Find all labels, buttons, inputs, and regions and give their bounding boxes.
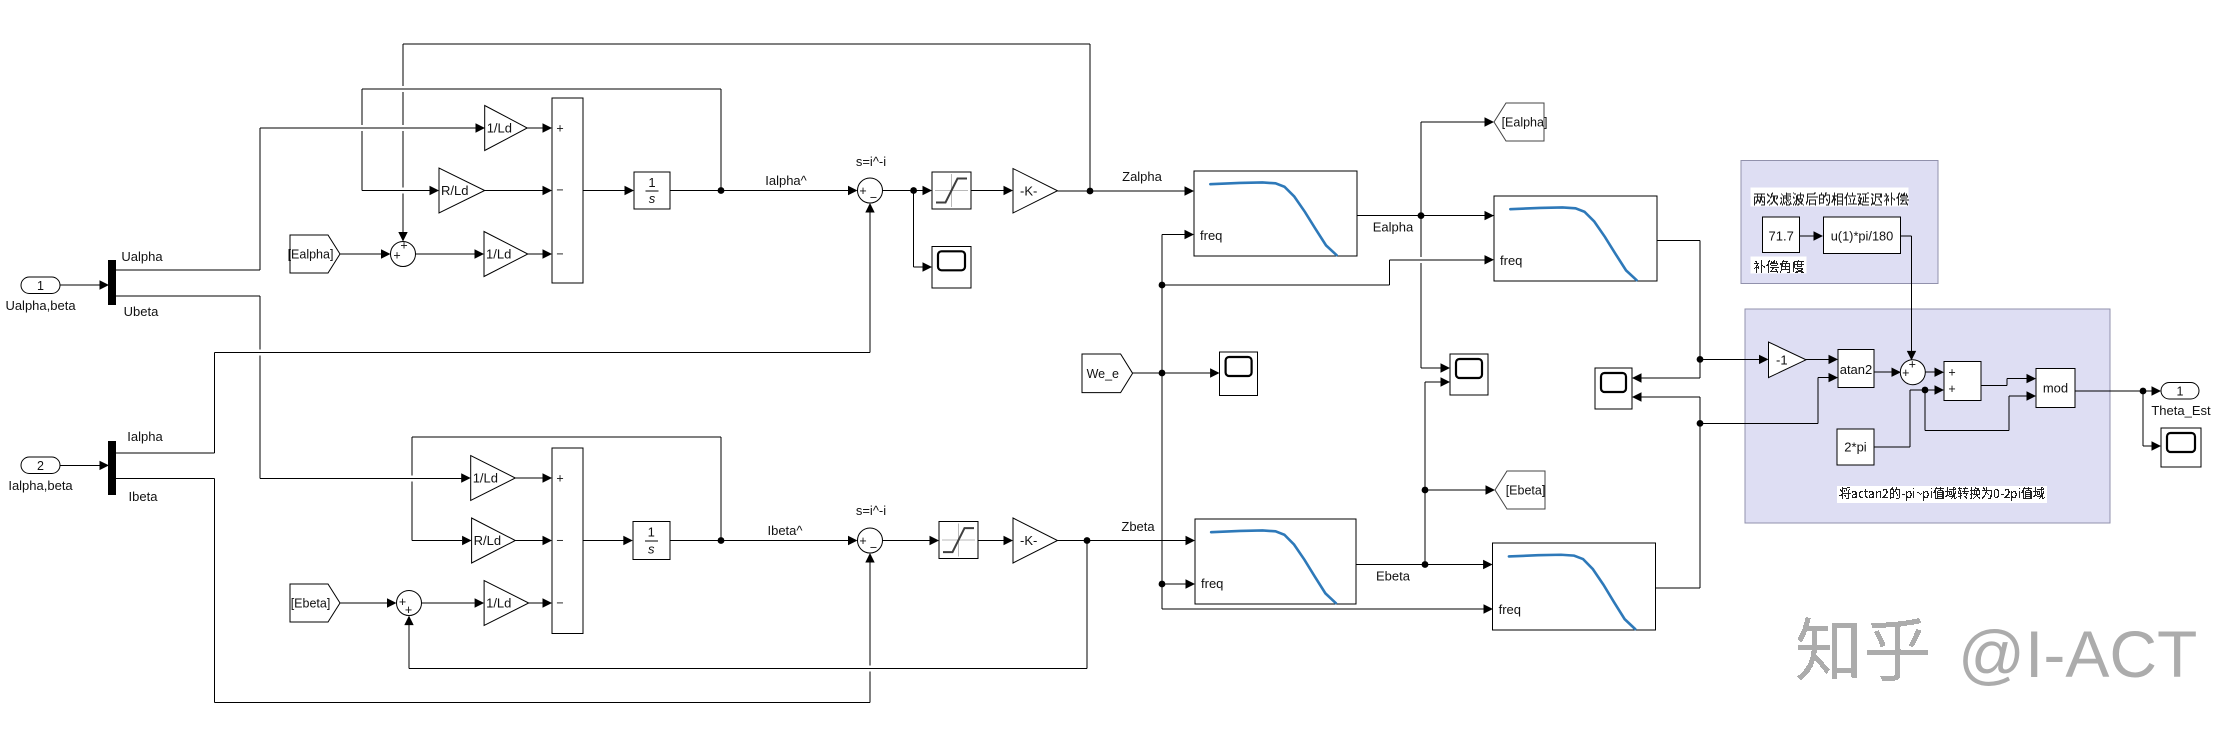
- From tag We_e: [1082, 354, 1133, 393]
- Scope1: [932, 246, 971, 287]
- wire: beta error sum to saturation: [883, 540, 931, 542]
- wire: In2 port to Demux2: [60, 464, 109, 466]
- wire: alpha integrator output Ialpha^ to error sum circle: [670, 190, 848, 192]
- wire: alpha error sum to saturation block: [883, 190, 924, 192]
- subsystem area: atan2 range conversion box (将actan2的-pi~pi值域转换为0-2pi值域): [1745, 309, 2110, 523]
- svg-text:1: 1: [2177, 384, 2184, 398]
- integrator 1/s alpha: [634, 172, 670, 209]
- Sum block alpha (+ - -): [552, 98, 583, 283]
- wire: freq branch to beta filter2: [1162, 608, 1484, 610]
- gain -1: [1769, 342, 1807, 378]
- svg-text:Ibeta^: Ibeta^: [767, 523, 803, 538]
- svg-text:freq: freq: [1200, 228, 1222, 243]
- wire: Zbeta feedback from beta -K- output to beta Ebeta sum: [1086, 541, 1088, 669]
- From tag [Ebeta]: [290, 584, 340, 622]
- svg-text:−: −: [870, 541, 877, 555]
- wire: Ealpha branch up to Goto [Ealpha] tag: [1420, 122, 1422, 216]
- subsystem area: phase-delay compensation box (两次滤波后的相位延迟补偿): [1741, 161, 1938, 284]
- saturation block beta: [939, 522, 978, 559]
- svg-text:+: +: [556, 122, 563, 136]
- wire: Fcn output down to compensation sum circle: [1901, 235, 1912, 237]
- svg-text:Ubeta: Ubeta: [124, 304, 159, 319]
- svg-text:atan2: atan2: [1840, 362, 1873, 377]
- svg-text:+: +: [1948, 382, 1955, 396]
- svg-text:+: +: [859, 534, 866, 548]
- svg-text:Ualpha: Ualpha: [121, 249, 163, 264]
- annotation: 补偿角度: [1751, 257, 1807, 274]
- svg-text:+: +: [1909, 358, 1916, 372]
- wire: beta filter2 output to atan2 second input and Scope3-flipped: [1656, 587, 1700, 589]
- sum circle alpha Ealpha+Zalpha: [391, 242, 416, 267]
- wire: mod output to Out1 Theta_Est: [2075, 390, 2152, 392]
- filter block alpha 1 (freq): [1194, 171, 1357, 256]
- input port 2 Ialpha,beta: [21, 457, 60, 474]
- From tag [Ealpha]: [290, 235, 340, 273]
- svg-text:We_e: We_e: [1087, 367, 1119, 381]
- svg-text:Ialpha,beta: Ialpha,beta: [8, 478, 73, 493]
- wire: In1 port to Demux1: [60, 284, 109, 286]
- svg-text:1/Ld: 1/Ld: [473, 471, 498, 486]
- atan2 block: [1838, 350, 1874, 388]
- svg-text:Ibeta: Ibeta: [129, 489, 159, 504]
- Scope3b flipped scope: [1595, 368, 1632, 409]
- junction dots: [718, 187, 725, 194]
- svg-text:Ealpha: Ealpha: [1373, 220, 1414, 235]
- svg-text:freq: freq: [1500, 253, 1522, 268]
- svg-text:+: +: [405, 603, 412, 617]
- svg-text:freq: freq: [1499, 602, 1521, 617]
- svg-text:1: 1: [37, 279, 44, 293]
- svg-text:1/Ld: 1/Ld: [486, 596, 511, 611]
- wire: alpha filter1 output Ealpha to filter2 and branches: [1357, 215, 1494, 217]
- wire: alpha integrator feedback to gain R/Ld: [720, 89, 722, 191]
- output port 1 Theta_Est: [2161, 383, 2199, 400]
- constant 71.7: [1763, 217, 1800, 253]
- sum circle beta Ebeta+Zbeta: [397, 591, 422, 616]
- wire: beta gain 1/Ld bottom to Sum block: [529, 602, 543, 604]
- wire: Ebeta branch up to Goto [Ebeta] tag and Scope2 input 2: [1424, 382, 1426, 565]
- wire: Zalpha feedback from -K- output to alpha Ealpha sum (top long wire): [1089, 44, 1091, 191]
- gain -K- beta: [1013, 518, 1058, 563]
- svg-text:−: −: [556, 596, 563, 610]
- wire: Ialpha measured from Demux2 to alpha error sum (minus input): [116, 452, 215, 454]
- wire: alpha filter2 output to -1 gain and Scope2: [1657, 240, 1700, 242]
- svg-text:Ualpha,beta: Ualpha,beta: [5, 298, 76, 313]
- Scope4 (Theta_Est): [2161, 428, 2201, 467]
- saturation block alpha: [932, 172, 971, 209]
- svg-text:R/Ld: R/Ld: [441, 183, 468, 198]
- svg-text:[Ebeta]: [Ebeta]: [1506, 484, 1546, 498]
- svg-text:s: s: [648, 542, 655, 557]
- svg-text:2: 2: [37, 459, 44, 473]
- wire: Ealpha branch down to Scope2 input 1: [1420, 216, 1422, 257]
- svg-text:s=i^-i: s=i^-i: [856, 154, 886, 169]
- svg-text:s=i^-i: s=i^-i: [856, 503, 886, 518]
- mod block: [2036, 369, 2075, 408]
- wire: compensation sum to Add block input 1: [1925, 371, 1935, 373]
- svg-text:Zalpha: Zalpha: [1122, 169, 1163, 184]
- wire: beta Sum block to integrator 1/s: [583, 540, 624, 542]
- integrator 1/s beta: [633, 522, 670, 560]
- wire: atan2 output to compensation sum circle: [1874, 371, 1892, 373]
- gain R/Ld (beta feedback): [472, 518, 516, 563]
- svg-text:−: −: [870, 191, 877, 205]
- wire: From [Ebeta] tag to beta sum circle: [340, 602, 387, 604]
- gain 1/Ld (alpha voltage): [485, 106, 528, 151]
- svg-text:−: −: [556, 534, 563, 548]
- gain R/Ld (alpha feedback): [439, 168, 485, 213]
- watermark 知乎 @I-ACT: [1797, 617, 1928, 681]
- svg-text:+: +: [393, 249, 400, 263]
- svg-text:Theta_Est: Theta_Est: [2151, 403, 2211, 418]
- annotation: 将actan2的-pi~pi值域转换为0-2pi值域: [1837, 486, 2047, 503]
- wire: constant 71.7 to Fcn u(1)*pi/180: [1800, 235, 1814, 237]
- wire: beta filter1 output Ebeta to beta filter2: [1356, 564, 1484, 566]
- filter block beta 2 (freq): [1493, 543, 1656, 630]
- svg-text:-1: -1: [1776, 352, 1788, 367]
- svg-text:[Ealpha]: [Ealpha]: [288, 248, 334, 262]
- wire: beta gain 1/Ld top to Sum block: [515, 477, 543, 479]
- filter block alpha 2 (freq): [1494, 196, 1657, 281]
- wire: Ubeta from Demux1 down to beta observer gain 1/Ld: [116, 295, 260, 297]
- svg-text:freq: freq: [1201, 576, 1223, 591]
- wire: beta integrator output Ibeta^ to error sum circle: [670, 540, 848, 542]
- wire: beta saturation to gain -K-: [977, 540, 1004, 542]
- svg-text:+: +: [400, 239, 407, 253]
- svg-text:1: 1: [648, 175, 655, 190]
- gain 1/Ld (beta voltage): [471, 456, 516, 501]
- constant 2*pi: [1837, 429, 1874, 465]
- svg-text:+: +: [859, 184, 866, 198]
- wire: -1 gain to atan2 input 1: [1806, 358, 1829, 360]
- svg-text:-K-: -K-: [1020, 533, 1037, 548]
- wire: Add block output to mod input 1: [1981, 384, 2007, 386]
- wire: 2*pi branch to mod input 2: [1924, 390, 1926, 431]
- Scope3 (We_e): [1220, 352, 1258, 395]
- wire: saturation to gain -K- (alpha): [971, 190, 1004, 192]
- wire: We_e tag to Scope3 and freq distribution net: [1133, 372, 1211, 374]
- input port 1 Ualpha,beta: [21, 277, 60, 294]
- gain 1/Ld (beta bemf): [484, 581, 529, 626]
- wire: freq branch to beta filter1: [1162, 583, 1186, 585]
- annotation: 两次滤波后的相位延迟补偿: [1751, 188, 1909, 207]
- wire: beta Ebeta sum to gain 1/Ld: [422, 602, 475, 604]
- svg-text:Ialpha: Ialpha: [127, 429, 163, 444]
- svg-text:@I-ACT: @I-ACT: [1958, 617, 2197, 691]
- wire: beta -K- output Zbeta to beta filter1: [1058, 540, 1187, 542]
- wire: alpha Sum block to integrator 1/s: [583, 190, 625, 192]
- svg-text:+: +: [556, 472, 563, 486]
- svg-text:2*pi: 2*pi: [1844, 440, 1867, 455]
- svg-text:+: +: [1902, 366, 1909, 380]
- Demux2: [108, 441, 116, 495]
- svg-text:−: −: [556, 247, 563, 261]
- wire: constant 2*pi to Add block input 2: [1874, 446, 1910, 448]
- svg-text:+: +: [1948, 366, 1955, 380]
- wire: Ibeta measured from Demux2 to beta error sum (minus input): [116, 477, 215, 479]
- wire: alpha gain R/Ld to Sum block: [485, 190, 543, 192]
- svg-text:[Ealpha]: [Ealpha]: [1502, 116, 1548, 130]
- wire: beta gain R/Ld to Sum block: [515, 540, 543, 542]
- wire: freq branch to alpha filter2: [1162, 284, 1390, 286]
- Scope2 (Ealpha/Ebeta filtered): [1450, 354, 1488, 395]
- wire: alpha gain 1/Ld bottom to Sum block: [528, 253, 543, 255]
- svg-text:71.7: 71.7: [1769, 229, 1794, 244]
- gain 1/Ld (alpha bemf): [484, 232, 528, 277]
- Fcn block u(1)*pi/180: [1824, 217, 1901, 254]
- svg-text:1: 1: [648, 525, 655, 540]
- wire: From [Ealpha] tag to sum circle: [340, 253, 382, 255]
- svg-text:mod: mod: [2043, 381, 2068, 396]
- filter block beta 1 (freq): [1195, 519, 1356, 604]
- Demux1: [108, 260, 116, 305]
- gain -K- alpha: [1013, 169, 1058, 214]
- svg-text:[Ebeta]: [Ebeta]: [291, 597, 331, 611]
- svg-text:−: −: [556, 183, 563, 197]
- wire: freq to alpha filter1: [1162, 234, 1185, 236]
- svg-text:1/Ld: 1/Ld: [486, 247, 511, 262]
- wire: alpha Ealpha sum to gain 1/Ld: [416, 253, 476, 255]
- svg-text:-K-: -K-: [1020, 183, 1037, 198]
- Goto tag [Ebeta]: [1495, 471, 1545, 509]
- svg-text:Ebeta: Ebeta: [1376, 569, 1411, 584]
- svg-text:1/Ld: 1/Ld: [487, 121, 512, 136]
- svg-text:Ialpha^: Ialpha^: [765, 173, 807, 188]
- wire: branch to Scope1: [913, 191, 915, 268]
- wire: beta observer feedback to gain R/Ld: [720, 437, 722, 541]
- wire: branch to Scope4: [2142, 391, 2144, 446]
- Add block (+ +): [1944, 362, 1981, 401]
- wire: Ualpha from Demux1 up to gain 1/Ld (alpha voltage path): [116, 269, 260, 271]
- arrowheads: [100, 280, 110, 289]
- svg-text:s: s: [649, 191, 656, 206]
- Goto tag [Ealpha]: [1494, 103, 1544, 141]
- wire: freq net vertical: [1161, 235, 1163, 610]
- svg-text:u(1)*pi/180: u(1)*pi/180: [1831, 229, 1894, 244]
- Sum block beta (+ - -): [552, 448, 583, 634]
- svg-text:Zbeta: Zbeta: [1121, 519, 1155, 534]
- svg-text:R/Ld: R/Ld: [474, 533, 501, 548]
- compensation sum circle: [1900, 360, 1925, 385]
- wire: -K- output Zalpha to filter1: [1058, 190, 1186, 192]
- wire: alpha gain 1/Ld top to Sum block: [527, 127, 543, 129]
